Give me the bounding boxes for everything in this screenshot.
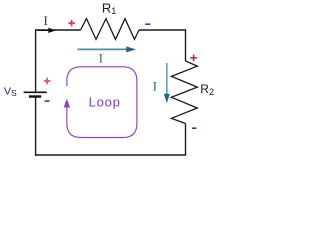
svg-text:I: I bbox=[44, 13, 48, 28]
wire top-left segment bbox=[36, 29, 81, 31]
current arrow I beside R2 (teal, downward) bbox=[164, 63, 170, 103]
svg-text:Loop: Loop bbox=[89, 94, 121, 109]
current arrow I under R1 (teal) bbox=[77, 46, 136, 52]
resistor R1 bbox=[81, 19, 140, 40]
loop arrow (KVL loop, clockwise) bbox=[67, 67, 137, 138]
wire bottom segment bbox=[35, 154, 186, 156]
battery plus polarity bbox=[44, 78, 51, 85]
resistor R2 bbox=[171, 61, 197, 124]
wire right lower segment bbox=[185, 124, 187, 156]
plus polarity above R2 bbox=[190, 55, 197, 61]
wire left upper segment bbox=[35, 29, 37, 92]
minus polarity right of R1 bbox=[145, 23, 150, 25]
svg-text:VS: VS bbox=[4, 86, 17, 98]
svg-text:I: I bbox=[153, 79, 157, 93]
minus polarity below R2 bbox=[192, 127, 197, 129]
voltage source VS battery bbox=[24, 92, 47, 96]
battery minus polarity bbox=[45, 100, 50, 102]
svg-text:I: I bbox=[99, 52, 103, 66]
plus polarity left of R1 bbox=[68, 20, 75, 26]
wire top-right segment bbox=[139, 29, 186, 31]
svg-text:R1: R1 bbox=[102, 0, 116, 16]
loop arrowhead bbox=[64, 99, 70, 108]
svg-text:R2: R2 bbox=[200, 82, 214, 97]
current arrow I top (black) bbox=[38, 28, 56, 33]
wire right upper segment bbox=[185, 29, 187, 61]
wire left lower segment bbox=[35, 96, 37, 155]
